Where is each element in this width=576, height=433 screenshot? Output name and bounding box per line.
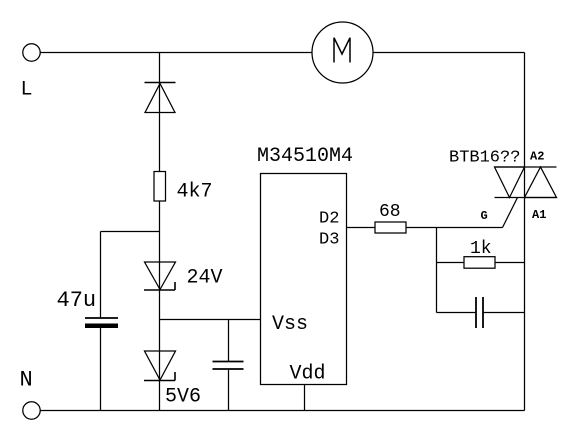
wire N rail — [41, 410, 525, 412]
svg-text:5V6: 5V6 — [165, 386, 201, 409]
wire snubber branch down — [436, 228, 438, 313]
capacitor 47u — [85, 318, 118, 328]
wire 68 to gate — [406, 227, 503, 229]
resistor 4k7 — [154, 172, 166, 202]
svg-text:A1: A1 — [532, 208, 546, 222]
wire cap to A1 net — [484, 312, 525, 314]
wire right vertical (A2 net) — [524, 53, 526, 411]
svg-text:24V: 24V — [187, 267, 223, 290]
svg-text:68: 68 — [379, 202, 401, 222]
wire down to 47u top — [100, 232, 102, 318]
svg-text:N: N — [20, 368, 33, 393]
capacitor C3 — [476, 297, 483, 328]
wire cap branch down — [228, 320, 230, 362]
wire motor to right vertical — [374, 52, 525, 54]
svg-text:D2: D2 — [319, 210, 339, 229]
wire 47u bottom to N rail — [100, 328, 102, 411]
svg-text:M34510M4: M34510M4 — [257, 145, 353, 168]
triac BTB16 — [495, 167, 557, 198]
motor M1 — [312, 22, 373, 83]
resistor 1k — [464, 257, 495, 269]
zener 24V — [144, 262, 176, 290]
wire to 1k — [437, 262, 465, 264]
svg-text:A2: A2 — [530, 150, 544, 164]
svg-text:47u: 47u — [57, 288, 97, 313]
svg-text:Vss: Vss — [272, 313, 308, 336]
terminal N — [23, 402, 40, 419]
wire to snubber cap — [437, 312, 476, 314]
wire gate diagonal — [503, 198, 518, 228]
svg-text:D3: D3 — [319, 231, 339, 250]
svg-text:BTB16??: BTB16?? — [449, 149, 520, 168]
wire resistor to N rail through zeners — [159, 201, 161, 411]
zener 5V6 — [144, 351, 176, 381]
wire Vss net horizontal — [160, 319, 261, 321]
svg-text:4k7: 4k7 — [177, 181, 213, 204]
svg-text:Vdd: Vdd — [290, 363, 326, 386]
wire D2/D3 pin to resistor 68 — [347, 227, 376, 229]
wire cap to N rail — [228, 369, 230, 411]
wire branch to 47u — [101, 231, 160, 233]
wire L to motor — [41, 52, 312, 54]
terminal L — [23, 44, 40, 61]
op IC U1 M34510M4 — [261, 174, 347, 385]
wire 1k to A1 net — [495, 262, 525, 264]
svg-text:G: G — [481, 209, 488, 223]
resistor R68 — [375, 222, 406, 233]
diode D1 — [145, 83, 176, 113]
capacitor C2 — [213, 362, 244, 370]
svg-text:L: L — [21, 79, 33, 102]
wire top node through diode — [159, 53, 161, 172]
wire Vdd to N rail — [304, 385, 306, 411]
svg-text:1k: 1k — [470, 239, 492, 259]
